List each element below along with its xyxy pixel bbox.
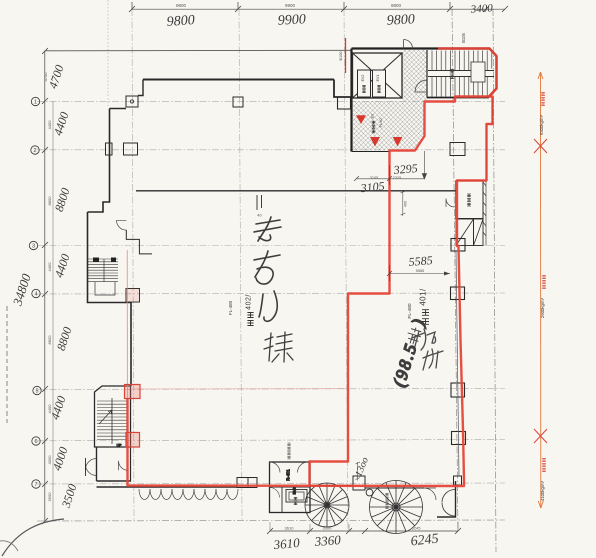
- vestibule entry arcs: [86, 459, 97, 476]
- north wall right step down: [334, 80, 352, 98]
- hall door arc: [415, 80, 427, 92]
- svg-text:3400: 3400: [469, 2, 493, 16]
- stair rail eye: [471, 62, 485, 82]
- circled axis 6: [32, 437, 40, 445]
- svg-text:5: 5: [35, 389, 38, 395]
- bottom dim ticks: [267, 528, 461, 534]
- svg-text:4400: 4400: [47, 120, 52, 130]
- svg-text:EV3: EV3: [293, 488, 297, 495]
- bottom dimension line: [270, 530, 458, 532]
- dim 1300 vertical: [356, 462, 361, 481]
- elevator cab 2: [358, 70, 371, 97]
- dim line 3105-3295: [356, 165, 425, 185]
- svg-text:5585: 5585: [408, 253, 433, 269]
- red faint west boundary upper: [126, 250, 128, 398]
- grid row 1: [37, 100, 505, 102]
- kitchenette east double wall: [483, 181, 486, 246]
- south wall west run: [97, 481, 238, 487]
- east window line: [456, 251, 459, 476]
- left dimension ticks: [42, 48, 48, 524]
- red faint axis5 tint: [132, 388, 346, 391]
- elevator cab 1: [373, 70, 386, 97]
- tiny storage label above room: [287, 443, 290, 459]
- column with circle at axis1/A: [126, 96, 138, 107]
- svg-text:R-401: R-401: [286, 469, 291, 481]
- bottom extension stubs: [270, 522, 458, 531]
- svg-text:8800: 8800: [47, 335, 52, 345]
- shaft box with X left: [456, 219, 474, 246]
- red unit outline outer right side: [128, 49, 497, 487]
- roof door arc: [404, 40, 413, 49]
- bottom left freehand curve: [2, 519, 64, 556]
- elevator shaft X braces: [353, 53, 403, 98]
- interior stair treads: [97, 401, 128, 439]
- svg-text:7: 7: [34, 482, 37, 488]
- column axis7/E small: [454, 476, 462, 485]
- red triangle marker 3: [393, 137, 403, 147]
- shaft box with X right: [474, 219, 484, 246]
- grid row 5: [37, 389, 505, 390]
- load note mid: [542, 275, 546, 288]
- svg-text:FL±0: FL±0: [378, 118, 383, 128]
- column axis5/E: [451, 383, 465, 397]
- red triangle marker 2: [370, 137, 380, 147]
- stair label: [450, 69, 454, 78]
- svg-text:9800: 9800: [391, 3, 402, 8]
- short dotted line top-left: [107, 0, 109, 106]
- core north wall: [352, 49, 497, 57]
- grid column line A: [132, 9, 134, 521]
- red corridor boundary branch: [310, 97, 490, 486]
- column axis6/E: [452, 432, 466, 445]
- awning scallops: [139, 489, 238, 500]
- core east wall of stairs: [489, 56, 497, 97]
- R-401 door arcs: [270, 462, 309, 473]
- svg-text:9800: 9800: [386, 12, 415, 28]
- R-401 sub door arc: [270, 488, 280, 498]
- handwritten bukken glyph B: [423, 349, 443, 370]
- elevator shaft box: [353, 53, 403, 98]
- spiral stair large: [370, 481, 423, 534]
- far left project title tiny: [6, 306, 8, 423]
- svg-text:5585: 5585: [416, 269, 424, 273]
- fire stair treads: [88, 259, 118, 281]
- svg-text:UP: UP: [117, 444, 123, 448]
- svg-text:4400: 4400: [47, 262, 52, 272]
- load note lower: [542, 458, 546, 471]
- column axis4/E: [451, 287, 465, 300]
- grid row 2: [37, 149, 505, 151]
- grid column line D: [452, 9, 458, 531]
- handwritten bukken glyph A: [412, 329, 443, 370]
- grid column line E rightmost: [493, 9, 496, 552]
- svg-text:2: 2: [33, 148, 36, 154]
- south wall mid run: [310, 485, 353, 487]
- bottom boundary row: [37, 520, 505, 521]
- svg-text:EV: EV: [371, 113, 375, 118]
- spiral stair small: [305, 483, 349, 527]
- svg-text:4100kg/m²: 4100kg/m²: [540, 480, 545, 501]
- svg-text:3610: 3610: [285, 526, 295, 531]
- south wall under spirals: [365, 487, 424, 489]
- MARK:RED2: [354, 151, 450, 481]
- dim line 5585: [390, 265, 451, 281]
- spiral stair label: [385, 493, 388, 508]
- pink column axis6/A: [126, 433, 140, 448]
- MARK:BOTTOM2: [125, 32, 548, 508]
- hall bottom wall: [352, 151, 391, 153]
- top extension stubs: [131, 2, 133, 9]
- load note upper: [541, 92, 545, 105]
- svg-text:6245: 6245: [410, 532, 439, 550]
- interior stair block outline: [95, 386, 131, 447]
- double door leaf (3 shape): [442, 490, 455, 517]
- fire stair nosing marks: [93, 258, 99, 262]
- south east corner walls: [437, 481, 456, 517]
- top dimension line: [132, 8, 505, 10]
- svg-text:B100: B100: [339, 52, 343, 61]
- svg-text:400: 400: [404, 201, 408, 207]
- top dimension ticks: [129, 6, 508, 12]
- column pair on south wall: [237, 478, 248, 488]
- svg-text:4700: 4700: [43, 72, 48, 82]
- svg-text:3105: 3105: [359, 179, 385, 196]
- handwritten (98.5 tsubo): [389, 317, 428, 389]
- north wall of main hall: [143, 79, 334, 81]
- circled axis 3: [29, 241, 37, 249]
- west wall mid: [88, 212, 132, 386]
- svg-text:2325: 2325: [393, 176, 401, 180]
- kitchenette room walls: [456, 181, 483, 219]
- svg-text:3360: 3360: [313, 532, 341, 549]
- wall from column to west wall: [110, 108, 127, 110]
- svg-text:6245: 6245: [412, 526, 422, 531]
- red B100 annotation line left of core: [345, 38, 347, 73]
- svg-text:8800: 8800: [47, 196, 52, 206]
- machine room R-401 walls: [270, 462, 311, 513]
- tenant name glyph 3: [259, 291, 277, 321]
- R-401 inner EV box: [286, 490, 307, 503]
- north wall left step: [138, 80, 143, 96]
- stairwell bottom wall: [427, 97, 489, 99]
- svg-text:FL-480: FL-480: [228, 300, 233, 315]
- svg-text:EV1: EV1: [376, 75, 380, 82]
- core west wall: [350, 49, 352, 152]
- mid-left room walls: [126, 230, 152, 254]
- column axis2/E: [450, 143, 465, 156]
- svg-text:9800: 9800: [176, 3, 187, 8]
- column near spiral: [353, 476, 365, 490]
- column axis1/B: [233, 97, 243, 107]
- circled axis 5: [33, 386, 41, 394]
- grid row 6: [37, 440, 505, 441]
- dim 3295 leader vertical with arrow: [422, 151, 426, 179]
- column axis3/E: [451, 239, 465, 252]
- kitchenette door arc: [446, 199, 455, 208]
- svg-text:6: 6: [34, 439, 37, 445]
- MARK:CORE2: [0, 386, 461, 556]
- svg-text:3295: 3295: [392, 161, 418, 177]
- svg-text:4400: 4400: [47, 404, 52, 414]
- south door arc right: [424, 488, 436, 500]
- svg-text:FL-480: FL-480: [407, 303, 413, 319]
- svg-text:3: 3: [32, 244, 35, 250]
- svg-text:9900: 9900: [277, 12, 306, 28]
- circled axis 2: [31, 146, 39, 154]
- section cross mark upper: [534, 139, 547, 153]
- interior wall under axis row (long): [136, 190, 456, 192]
- grid row 3: [37, 245, 505, 247]
- column box at core west: [338, 97, 351, 109]
- circled axis 1: [31, 97, 39, 105]
- divider wall hall/stairs: [426, 50, 428, 98]
- stair landing bars: [428, 71, 494, 77]
- MARK:WALLS2: [352, 40, 497, 152]
- grid column line C: [344, 9, 348, 531]
- left dimension chain line: [44, 51, 46, 521]
- svg-text:2900kg/m²: 2900kg/m²: [540, 297, 545, 318]
- circled axis 4: [32, 289, 40, 297]
- top boundary thin line: [45, 49, 351, 52]
- tenant name glyph 2: [254, 251, 280, 284]
- svg-text:4: 4: [34, 292, 37, 298]
- right building edge below stairs: [487, 97, 493, 181]
- column axis4/A pale: [126, 289, 140, 303]
- pilaster on west wall: [106, 143, 113, 155]
- svg-text:B105: B105: [461, 32, 466, 42]
- pink column axis5/A: [125, 385, 141, 399]
- svg-text:9300kg/m²: 9300kg/m²: [539, 114, 544, 135]
- svg-text:3500: 3500: [47, 492, 52, 502]
- red triangle marker 1: [356, 115, 366, 124]
- stair treads upper flight: [432, 51, 492, 97]
- circled axis 7: [32, 480, 40, 488]
- svg-text:9800: 9800: [166, 13, 195, 30]
- grid row 4: [37, 293, 505, 294]
- mid-left room door arc: [117, 220, 127, 230]
- tenant name glyph 4 (sama): [264, 332, 293, 362]
- svg-text:3610: 3610: [272, 535, 301, 552]
- svg-text:3300: 3300: [323, 526, 333, 531]
- svg-text:EV2: EV2: [361, 75, 365, 82]
- svg-text:40: 40: [257, 213, 262, 218]
- svg-text:9900: 9900: [285, 3, 296, 8]
- orange load dimension line right margin: [538, 72, 543, 508]
- interior stair up arrow: [99, 410, 112, 424]
- svg-text:401/: 401/: [419, 288, 428, 306]
- grid column line B: [239, 9, 242, 521]
- tenant name glyph 1: [254, 217, 281, 241]
- pink tint column axis4/A: [126, 289, 140, 303]
- west wall upper: [88, 109, 110, 213]
- fire stair stringer: [95, 259, 115, 295]
- section cross mark lower: [534, 429, 547, 443]
- vestibule west wall: [96, 447, 98, 481]
- kitchenette label: [467, 194, 471, 206]
- grid row 7: [37, 483, 505, 484]
- vestibule east wall: [130, 447, 132, 481]
- left secondary chain line: [52, 101, 54, 521]
- interior stair stringer: [111, 398, 113, 444]
- dim 400 vertical: [401, 191, 406, 216]
- small post circle: [366, 489, 373, 496]
- svg-text:4000: 4000: [47, 455, 52, 465]
- door jamb dim marker mid floor: [257, 195, 262, 210]
- svg-text:402/: 402/: [246, 294, 253, 310]
- R-401 inner partition: [270, 487, 311, 513]
- column axis2/A: [124, 143, 138, 155]
- svg-text:1: 1: [34, 100, 37, 106]
- vestibule inner door arc: [119, 461, 129, 471]
